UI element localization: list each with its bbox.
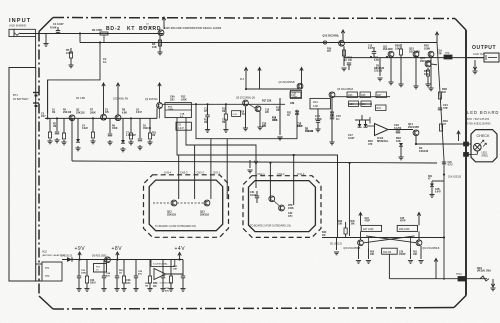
svg-text:+4V: +4V [175,246,186,252]
svg-text:47U: 47U [288,215,293,218]
svg-text:INPUT: INPUT [9,18,31,24]
svg-text:47U: 47U [165,290,169,293]
svg-text:2SK118: 2SK118 [63,112,72,114]
svg-text:(PEDAL SW): (PEDAL SW) [477,270,491,273]
svg-text:2SK118: 2SK118 [76,111,85,114]
svg-text:R11: R11 [152,133,157,135]
svg-text:0.047: 0.047 [178,128,184,130]
svg-text:R6 1.8M: R6 1.8M [76,97,85,100]
svg-text:Q4 2SK30A: Q4 2SK30A [145,98,158,101]
svg-text:R47 100K: R47 100K [363,228,374,231]
svg-text:0.022: 0.022 [82,128,88,130]
svg-text:2SC2458L R8: 2SC2458L R8 [113,98,129,101]
svg-text:9758 A6E31286R50: 9758 A6E31286R50 [467,123,491,126]
svg-text:Q8 2SC2458LB: Q8 2SC2458LB [337,89,354,91]
svg-text:CN2-2: CN2-2 [277,172,285,176]
svg-text:C23: C23 [90,280,95,282]
svg-text:C15: C15 [368,46,373,48]
svg-text:6.2K: 6.2K [233,114,238,116]
svg-text:R29: R29 [327,49,332,51]
svg-text:R48 100K: R48 100K [399,228,410,231]
svg-text:R21: R21 [287,113,292,115]
svg-text:0.47U: 0.47U [368,47,374,50]
svg-text:C24: C24 [365,217,370,220]
svg-text:6.8K: 6.8K [313,104,319,108]
svg-text:2SA1048: 2SA1048 [383,48,393,51]
svg-text:2SK118: 2SK118 [167,213,177,216]
svg-text:47U: 47U [138,273,142,276]
svg-text:1/2 M5223AL: 1/2 M5223AL [159,282,173,285]
svg-text:C2B: C2B [435,189,440,191]
svg-text:0.047: 0.047 [136,111,142,114]
svg-text:33U: 33U [170,98,175,101]
svg-text:R18: R18 [272,118,277,120]
svg-text:C1 0.047: C1 0.047 [53,22,64,26]
svg-text:22U: 22U [265,112,270,114]
svg-text:TP2: TP2 [45,275,50,278]
svg-text:100K: 100K [272,120,278,122]
svg-text:1M: 1M [222,111,225,113]
svg-text:R45: R45 [351,220,356,223]
svg-text:R25: R25 [361,94,366,97]
svg-text:1M: 1M [222,122,225,124]
svg-text:R27: R27 [377,94,382,97]
svg-text:TO BOARD 1 (FOR OUTBOARD 2/3): TO BOARD 1 (FOR OUTBOARD 2/3) [155,225,196,228]
svg-text:100K: 100K [288,207,294,210]
svg-text:6PD 76ET185J80: 6PD 76ET185J80 [467,119,490,121]
svg-text:(RED): (RED) [482,156,489,158]
svg-text:R16: R16 [240,112,245,114]
svg-text:1SS133: 1SS133 [305,131,314,133]
svg-text:Q11: Q11 [383,47,388,49]
svg-text:C30: C30 [290,103,295,105]
svg-text:0.047: 0.047 [348,136,355,140]
svg-text:C12: C12 [262,124,267,126]
svg-text:470: 470 [368,142,373,146]
svg-text:CN3-4: CN3-4 [164,171,172,175]
svg-text:2SC2458L: 2SC2458L [143,26,154,28]
svg-text:D1A 1SS133: D1A 1SS133 [448,176,462,179]
svg-text:C20: C20 [448,162,453,164]
svg-text:BT1: BT1 [13,93,18,97]
svg-text:470P: 470P [400,220,406,223]
svg-text:1K: 1K [287,115,290,117]
svg-text:470P: 470P [365,220,371,223]
svg-text:JACK IN/MONO: JACK IN/MONO [9,25,26,28]
svg-text:1/47: 1/47 [41,115,46,118]
svg-text:0.1/50: 0.1/50 [394,126,402,130]
svg-text:C11: C11 [204,109,209,111]
svg-text:R23: R23 [348,94,353,97]
svg-text:TO BOARD 2 (FOR OUTBOARD 1/3): TO BOARD 2 (FOR OUTBOARD 1/3) [250,224,291,227]
svg-text:1M: 1M [362,103,365,106]
svg-text:10K: 10K [152,45,157,49]
svg-text:10K: 10K [338,224,343,226]
svg-text:SW1: SW1 [477,268,483,270]
svg-text:BD-2: BD-2 [106,26,121,32]
svg-text:CN3-3: CN3-3 [180,171,188,175]
svg-text:C13: C13 [291,94,296,97]
svg-text:D9 RD5.1EB2: D9 RD5.1EB2 [92,255,107,257]
svg-text:R49 1M: R49 1M [383,252,391,254]
svg-text:TP1: TP1 [45,267,50,270]
svg-text:100K: 100K [181,98,187,101]
svg-text:1M: 1M [145,286,148,288]
svg-text:TP10: TP10 [456,273,462,276]
svg-text:10K: 10K [173,269,177,271]
svg-text:10K: 10K [370,254,375,256]
svg-text:Q5 2SC2458L Q6: Q5 2SC2458L Q6 [236,97,256,100]
svg-text:CHECK: CHECK [477,134,490,138]
svg-text:1995 ROLAND CORPORATION OSAKA: 1995 ROLAND CORPORATION OSAKA JAPAN [164,27,222,30]
svg-text:1SS133: 1SS133 [419,149,429,153]
svg-text:300K: 300K [90,111,96,114]
svg-text:6.8K: 6.8K [122,111,127,114]
svg-text:C10: C10 [265,110,270,112]
svg-text:CN3-1: CN3-1 [213,171,221,175]
svg-text:1M: 1M [153,285,156,288]
svg-text:AD2: AD2 [42,251,47,254]
svg-text:1U: 1U [344,60,347,62]
svg-text:C25: C25 [400,218,405,220]
svg-text:CN2-1: CN2-1 [257,172,265,176]
svg-text:1U: 1U [336,117,339,121]
svg-text:R26: R26 [348,58,353,60]
svg-text:100U: 100U [81,273,87,275]
svg-text:4.7K: 4.7K [240,113,245,116]
svg-text:100U: 100U [90,283,96,285]
svg-text:4.7K: 4.7K [374,59,379,62]
svg-text:0.047: 0.047 [435,191,441,194]
svg-text:0.1: 0.1 [103,60,107,64]
svg-text:R 50K: R 50K [50,28,57,30]
svg-text:PL3: PL3 [240,79,245,81]
svg-text:47U: 47U [105,111,110,114]
svg-text:CN3-2: CN3-2 [196,171,204,175]
svg-text:Q10 2SC2458L: Q10 2SC2458L [323,35,340,38]
svg-text:R43: R43 [338,220,343,223]
svg-text:R2 470K: R2 470K [92,28,102,32]
svg-text:1U: 1U [52,110,55,112]
svg-text:LED BOARD: LED BOARD [467,110,499,115]
svg-text:LED1: LED1 [482,153,488,155]
svg-text:100P: 100P [297,126,303,128]
svg-text:D8 1SS133: D8 1SS133 [61,255,73,257]
svg-text:2SK118: 2SK118 [200,213,210,216]
svg-text:1000P: 1000P [399,254,406,256]
svg-text:TP9: TP9 [445,52,450,55]
svg-text:10K: 10K [396,139,401,143]
svg-text:Q19 2SC2458LB: Q19 2SC2458LB [422,248,440,250]
svg-text:100K: 100K [112,128,118,130]
svg-text:2SC2458: 2SC2458 [420,59,431,63]
svg-text:10K: 10K [351,224,356,226]
svg-text:10K: 10K [413,254,418,256]
svg-text:47U: 47U [126,282,131,285]
svg-text:C13: C13 [297,124,302,126]
svg-text:1M: 1M [442,90,446,94]
svg-text:47P: 47P [443,106,448,110]
svg-text:1M: 1M [52,112,55,114]
svg-text:1M: 1M [53,126,56,128]
svg-text:1M: 1M [204,122,207,124]
svg-text:100K: 100K [168,109,174,111]
svg-text:4.7U: 4.7U [448,164,453,167]
svg-text:10K: 10K [350,103,355,106]
svg-text:1N4148: 1N4148 [143,127,152,130]
svg-text:2SC2458: 2SC2458 [408,125,419,129]
svg-text:1M: 1M [322,234,325,237]
svg-text:+8V: +8V [112,246,123,252]
svg-text:1SS133: 1SS133 [374,71,383,73]
svg-text:IC1A M5223AL: IC1A M5223AL [153,263,168,266]
svg-text:R24: R24 [313,100,318,104]
svg-text:M5223AL: M5223AL [377,139,389,143]
svg-text:R31: R31 [377,107,382,110]
svg-text:1M: 1M [152,135,155,137]
svg-text:1K: 1K [119,273,122,275]
svg-text:47U: 47U [262,125,267,128]
svg-text:R41: R41 [428,175,433,178]
svg-text:C1A: C1A [180,113,185,116]
svg-text:Q9 2SC2458LB: Q9 2SC2458LB [279,82,296,84]
svg-text:OUTPUT: OUTPUT [472,45,496,51]
svg-text:47U: 47U [106,275,110,278]
svg-text:CN2-3: CN2-3 [297,172,305,176]
svg-text:KT: KT [127,26,135,32]
svg-text:R20: R20 [295,112,300,114]
svg-text:9V BATTERY: 9V BATTERY [13,97,29,101]
svg-text:100K: 100K [424,47,430,51]
svg-text:1-1N/3N7: 1-1N/3N7 [126,135,137,137]
svg-text:R14: R14 [204,119,209,122]
svg-text:R17 22K: R17 22K [262,100,272,103]
svg-text:+9V: +9V [75,246,86,252]
